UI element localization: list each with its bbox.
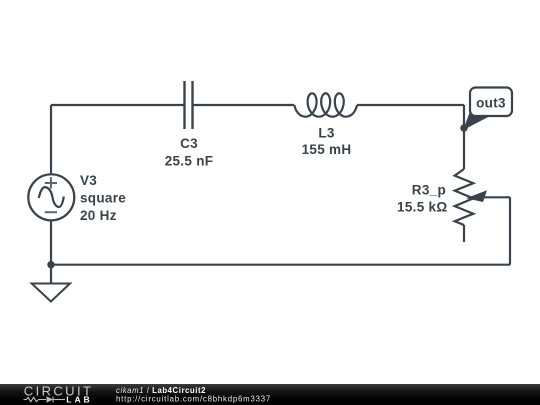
- wiper wire vertical down: [509, 197, 511, 264]
- logo resistor-diode glyph: [24, 397, 66, 403]
- svg-text:LAB: LAB: [66, 395, 92, 405]
- junction dot out3: [460, 124, 467, 131]
- V3 minus sign: [45, 211, 57, 213]
- wire between capacitor and inductor: [194, 104, 295, 106]
- wire V3 bottom lead: [50, 220, 52, 283]
- potentiometer bottom lead: [463, 225, 465, 242]
- ground symbol: [32, 284, 70, 302]
- V3 sine wave: [39, 187, 64, 207]
- svg-text:out3: out3: [476, 96, 506, 111]
- V3 plus sign: [45, 177, 57, 188]
- svg-text:square: square: [80, 191, 126, 206]
- svg-text:25.5 nF: 25.5 nF: [165, 153, 214, 168]
- wire top horizontal left segment: [51, 104, 184, 106]
- footer bar: [0, 384, 540, 405]
- svg-text:L3: L3: [318, 125, 335, 140]
- svg-text:V3: V3: [80, 173, 97, 188]
- wire top-left vertical: [50, 105, 52, 175]
- svg-text:http://circuitlab.com/c8bhkdp6: http://circuitlab.com/c8bhkdp6m3337: [116, 394, 271, 403]
- voltage source V3 circle: [28, 174, 74, 220]
- svg-text:15.5 kΩ: 15.5 kΩ: [397, 200, 447, 215]
- svg-text:155 mH: 155 mH: [302, 142, 352, 157]
- potentiometer R3_p zigzag: [455, 169, 474, 225]
- capacitor C3: [185, 81, 193, 129]
- inductor L3: [294, 93, 357, 117]
- wire inductor to top-right corner: [357, 104, 464, 106]
- node out3 flag tail: [465, 114, 490, 129]
- svg-text:C3: C3: [180, 136, 198, 151]
- svg-text:R3_p: R3_p: [412, 182, 446, 197]
- wire top-right vertical down to potentiometer: [463, 105, 465, 169]
- node out3 bubble: [470, 88, 512, 117]
- potentiometer wiper arrow head: [466, 190, 487, 202]
- junction dot ground node: [47, 261, 54, 268]
- svg-text:20 Hz: 20 Hz: [80, 208, 117, 223]
- wire bottom horizontal: [51, 264, 510, 266]
- wiper wire horizontal: [483, 196, 510, 198]
